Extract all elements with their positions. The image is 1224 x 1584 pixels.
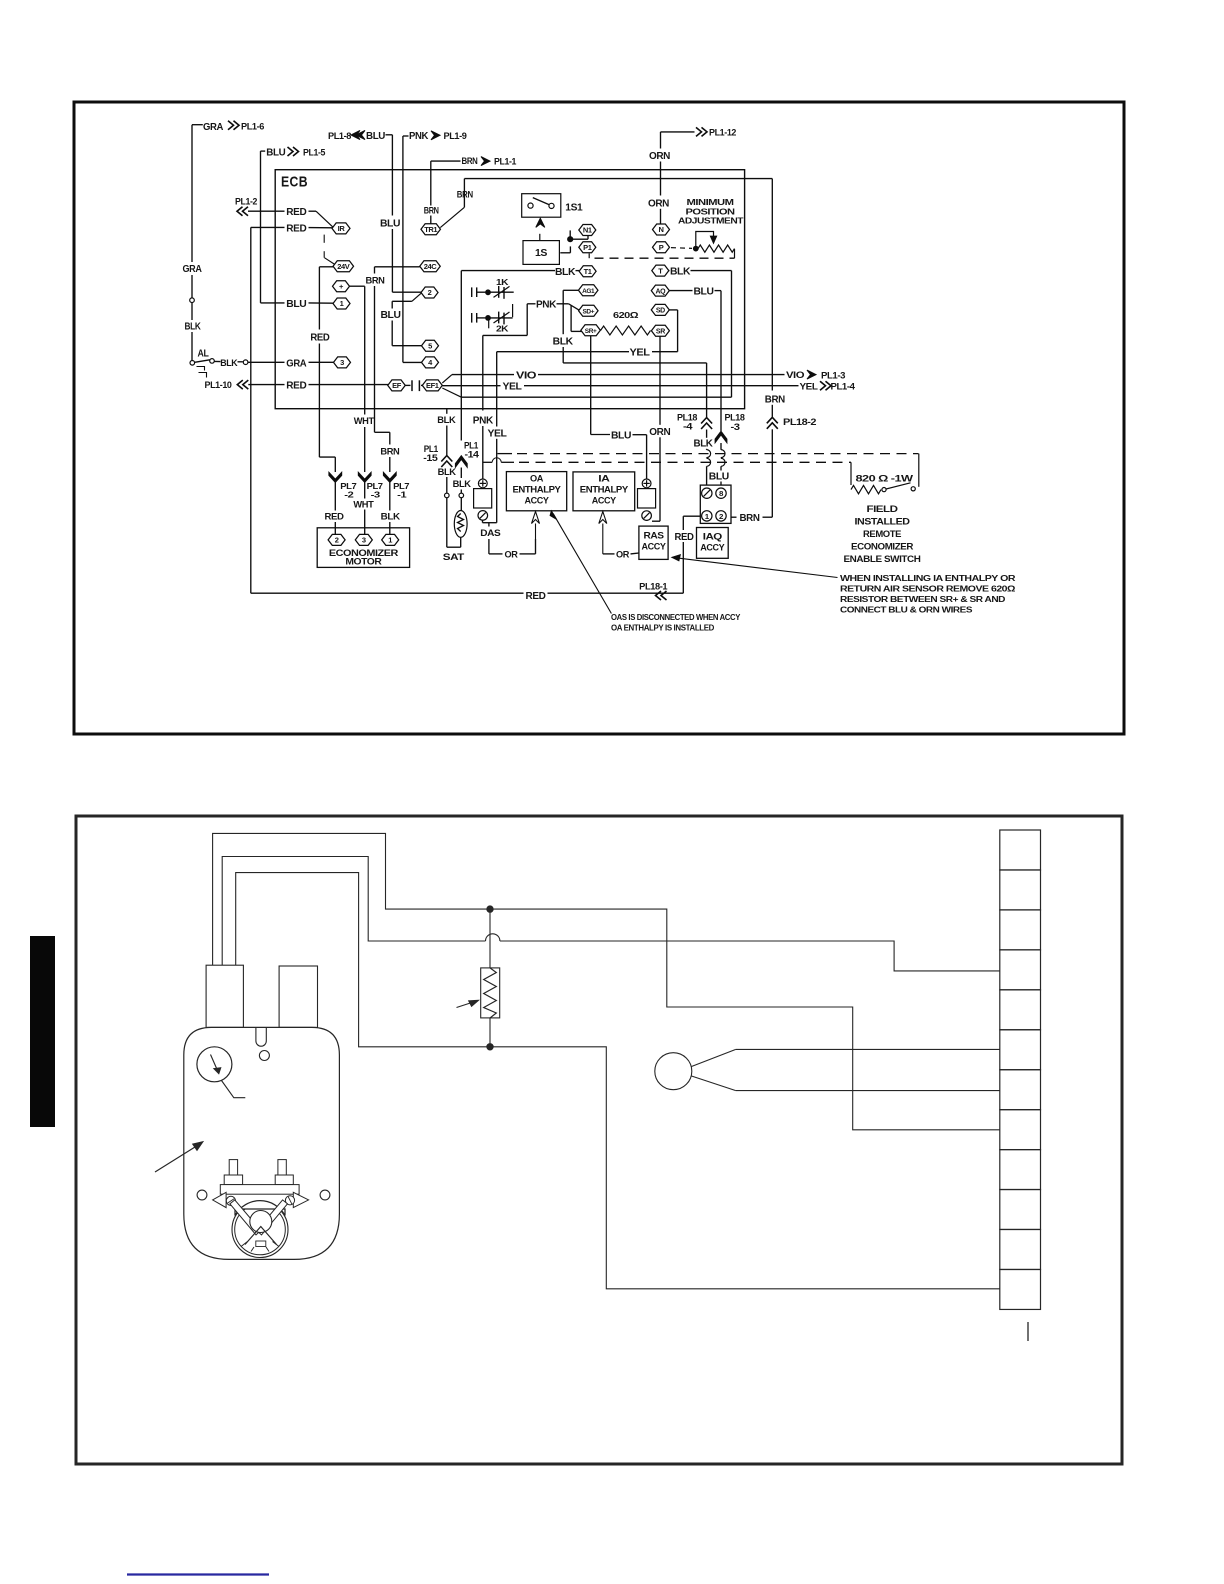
hex terminal 4: [422, 357, 439, 368]
svg-text:2: 2: [719, 512, 723, 521]
svg-text:-15: -15: [423, 453, 437, 463]
contact circle SAT left: [445, 493, 450, 498]
keyhole slot on actuator top: [256, 1027, 266, 1046]
svg-text:ACCY: ACCY: [700, 543, 725, 553]
bracket screws: [226, 1196, 235, 1205]
junction dot wire3/resistor: [487, 1044, 493, 1050]
box RAS accessory: [639, 526, 668, 559]
wire BRN right rail to PL18-2 and terminal 2: [771, 179, 773, 391]
svg-text:1S1: 1S1: [565, 203, 583, 214]
hub circle: [250, 1211, 272, 1233]
gauge dial on actuator: [197, 1047, 232, 1082]
wire BLK PL1-15 branch: [446, 409, 448, 414]
hex terminal T: [652, 265, 669, 276]
wire GRA to terminal 3: [248, 361, 285, 363]
svg-text:PL18-1: PL18-1: [639, 582, 667, 592]
pulley wheel: [232, 1202, 288, 1258]
hex terminal 1 on motor: [382, 534, 399, 545]
junction dot wire1/resistor: [487, 906, 493, 912]
svg-text:8: 8: [719, 489, 723, 498]
svg-text:1: 1: [705, 512, 709, 521]
svg-text:PNK: PNK: [536, 299, 557, 310]
svg-text:BLU: BLU: [611, 431, 631, 442]
wire YEL down to OAS: [496, 352, 498, 427]
plug PL18-3 arrow: [715, 431, 727, 443]
svg-text:ACCY: ACCY: [525, 496, 550, 506]
potentiometer (minimum position): [693, 246, 698, 251]
svg-text:BRN: BRN: [457, 190, 473, 201]
potentiometer circle: [655, 1053, 692, 1090]
svg-text:P: P: [659, 243, 664, 252]
hex terminal AQ: [651, 285, 669, 296]
hex terminal 5: [422, 340, 439, 351]
V arms: [230, 1200, 261, 1235]
arrow into IA enthalpy box with OR: [599, 512, 607, 524]
svg-text:BLK: BLK: [185, 322, 202, 333]
svg-text:INSTALLED: INSTALLED: [855, 516, 911, 527]
svg-text:IAQ: IAQ: [703, 532, 723, 542]
OAS outdoor air sensor: [478, 479, 487, 488]
svg-text:RED: RED: [526, 591, 546, 602]
svg-text:24C: 24C: [424, 262, 438, 271]
svg-text:EF1: EF1: [426, 381, 439, 390]
svg-text:PL1-6: PL1-6: [241, 122, 264, 132]
svg-text:ORN: ORN: [649, 151, 670, 162]
page margin tab: [30, 936, 55, 1127]
terminal block with screws 7 8 1 2: [700, 485, 731, 523]
svg-text:MOTOR: MOTOR: [345, 557, 382, 568]
plug PL18-2 arrow: [767, 417, 778, 429]
svg-text:PNK: PNK: [473, 415, 494, 426]
wire YEL from SD: [669, 309, 678, 311]
plug PL7-2 arrow: [329, 472, 342, 483]
svg-text:IR: IR: [338, 224, 346, 233]
hex terminal 3: [334, 357, 351, 368]
wire branch hex 2 to hex 5: [412, 293, 422, 302]
wire WHT from + to economizer motor 3: [350, 285, 365, 287]
hex terminal 3 on motor: [355, 534, 372, 545]
svg-text:ECB: ECB: [281, 174, 308, 191]
capacitor bars EF-EF1: [405, 384, 410, 386]
hex terminal 24V: [333, 261, 354, 272]
svg-text:BLK: BLK: [381, 512, 401, 523]
hex terminal SD+: [579, 305, 599, 316]
hex terminal TR1: [421, 224, 441, 235]
svg-text:RED: RED: [286, 207, 306, 218]
wire RED bottom run to PL18-1: [251, 592, 524, 594]
arrow into OA enthalpy box: [532, 512, 540, 524]
hex terminal 2 on motor: [328, 534, 345, 545]
svg-text:CONNECT BLU & ORN WIRES: CONNECT BLU & ORN WIRES: [840, 604, 973, 614]
svg-text:VIO: VIO: [786, 370, 804, 380]
hex terminal AG1: [578, 285, 598, 296]
svg-text:3: 3: [362, 536, 366, 545]
plug PL1-14 arrow: [455, 456, 467, 468]
svg-text:BRN: BRN: [366, 275, 386, 286]
svg-text:PL1-3: PL1-3: [821, 370, 845, 380]
hex terminal P1: [579, 242, 596, 253]
callout arrow to actuator: [155, 1145, 199, 1173]
svg-text:1S: 1S: [535, 248, 548, 259]
hex terminal 24C: [420, 261, 441, 272]
plug PL1-15 arrow: [441, 456, 452, 468]
frame of top wiring diagram: [74, 102, 1124, 734]
svg-text:2: 2: [335, 536, 339, 545]
svg-text:ACCY: ACCY: [592, 496, 617, 506]
hex terminal 2: [421, 287, 438, 298]
hex terminal SR: [651, 325, 669, 336]
svg-text:PL18: PL18: [725, 413, 745, 423]
svg-text:RETURN AIR SENSOR REMOVE 620Ω: RETURN AIR SENSOR REMOVE 620Ω: [840, 583, 1016, 593]
dashed wire from P1: [588, 254, 590, 259]
sensor 1S: [536, 218, 545, 227]
wire BLU from SR+ to RAS sensor: [590, 336, 592, 435]
wire BLU into hex 2: [392, 291, 421, 293]
svg-text:1: 1: [388, 536, 392, 545]
hex terminal EF1: [422, 380, 442, 391]
wiper wires from potentiometer to terminal strip: [692, 1049, 736, 1066]
svg-text:SR: SR: [656, 328, 665, 335]
actuator motor body: [184, 1027, 340, 1259]
svg-text:PL1-10: PL1-10: [205, 380, 232, 390]
hex terminal EF: [388, 380, 406, 391]
svg-text:PNK: PNK: [409, 131, 429, 142]
svg-text:GRA: GRA: [203, 122, 223, 133]
svg-text:BLK: BLK: [437, 415, 456, 426]
wire BLK vertical to PL1-14: [460, 271, 462, 441]
svg-text:BRN: BRN: [424, 205, 439, 216]
svg-text:-3: -3: [371, 490, 381, 500]
svg-text:2K: 2K: [496, 324, 509, 334]
plug PL1-1 BRN wire to hex TR1: [431, 160, 461, 162]
svg-text:BLU: BLU: [366, 131, 385, 142]
frame of bottom diagram: [76, 816, 1122, 1464]
wire PNK down to OAS sensor: [482, 335, 484, 410]
dashed boundary line 2: [483, 461, 492, 463]
wire BLK from AG1 to PL18-4 and RAS terminal: [563, 289, 578, 291]
dashed wire from P to potentiometer: [671, 247, 692, 250]
box IA enthalpy accessory: [573, 472, 635, 511]
svg-text:620Ω: 620Ω: [613, 310, 639, 320]
svg-text:GRA: GRA: [286, 358, 306, 369]
svg-text:OR: OR: [616, 549, 630, 560]
box OA enthalpy accessory: [506, 472, 566, 511]
svg-text:OA ENTHALPY IS INSTALLED: OA ENTHALPY IS INSTALLED: [611, 622, 714, 632]
resistor (feedback): [489, 909, 491, 968]
svg-text:FIELD: FIELD: [867, 504, 899, 515]
svg-text:BLK: BLK: [553, 337, 574, 348]
wire 3 (inner) actuator to lower run and terminal strip: [236, 873, 1000, 1289]
svg-text:BLK: BLK: [555, 267, 576, 278]
wire YEL to PL1-4: [442, 385, 500, 387]
mounting holes: [197, 1190, 207, 1200]
svg-text:BRN: BRN: [740, 513, 760, 524]
svg-text:-3: -3: [731, 422, 740, 432]
wire BLK from EF1 joining T rail: [442, 388, 461, 397]
box IAQ accessory: [697, 528, 729, 559]
svg-text:BLU: BLU: [266, 147, 285, 158]
svg-text:BLU: BLU: [709, 471, 729, 482]
svg-text:OA: OA: [530, 474, 544, 484]
hex terminal N1: [579, 225, 596, 236]
svg-text:WHT: WHT: [354, 416, 375, 427]
svg-text:PL1-8: PL1-8: [328, 131, 351, 141]
switch 1S1: [522, 194, 561, 218]
svg-text:BLK: BLK: [220, 358, 237, 369]
wires 1S to N1 and P1: [569, 230, 571, 236]
svg-text:2: 2: [428, 288, 432, 297]
svg-text:RED: RED: [286, 224, 306, 235]
svg-text:OAS IS DISCONNECTED WHEN ACCY: OAS IS DISCONNECTED WHEN ACCY: [611, 612, 741, 622]
plug PL18-4 arrow: [701, 418, 712, 430]
actuator wiring plug right: [279, 966, 317, 1027]
plug PL7-3 arrow: [358, 472, 371, 483]
svg-text:3: 3: [340, 358, 344, 367]
svg-text:BLU: BLU: [380, 218, 400, 229]
svg-text:24V: 24V: [337, 262, 350, 271]
svg-text:N1: N1: [583, 226, 592, 235]
svg-text:BLK: BLK: [694, 439, 714, 450]
svg-text:PL1-9: PL1-9: [444, 131, 467, 141]
svg-text:N: N: [658, 225, 663, 234]
svg-text:SD+: SD+: [582, 308, 594, 315]
wire BLU from AQ to PL18-3: [669, 290, 693, 292]
svg-text:REMOTE: REMOTE: [863, 529, 901, 540]
actuator wiring plug left: [206, 965, 243, 1027]
switch AL (alarm): [190, 361, 195, 366]
svg-text:PL1-2: PL1-2: [235, 197, 257, 207]
svg-text:P1: P1: [583, 243, 592, 252]
svg-text:-4: -4: [683, 422, 692, 432]
svg-text:ORN: ORN: [649, 427, 670, 438]
svg-text:820 Ω -1W: 820 Ω -1W: [856, 474, 914, 485]
svg-text:-14: -14: [465, 449, 479, 459]
svg-text:YEL: YEL: [800, 381, 819, 391]
arrow pointing to resistor: [457, 1001, 477, 1008]
plug PL7-1 arrow: [383, 472, 396, 483]
left wing pointer: [213, 1192, 227, 1207]
svg-text:-1: -1: [397, 490, 407, 500]
hex terminal 1: [333, 298, 350, 309]
svg-text:SAT: SAT: [443, 552, 465, 563]
svg-text:TR1: TR1: [424, 225, 437, 234]
svg-text:AL: AL: [198, 349, 209, 360]
svg-text:BLU: BLU: [381, 310, 401, 321]
tick mark below strip: [1027, 1322, 1029, 1341]
svg-text:5: 5: [428, 342, 432, 351]
pulley cap arc: [235, 1201, 285, 1216]
wire ORN from SR to RAS screw: [659, 336, 661, 425]
svg-text:WHEN INSTALLING IA ENTHALPY OR: WHEN INSTALLING IA ENTHALPY OR: [840, 573, 1016, 583]
splice circle on GRA wire: [190, 298, 195, 303]
ECB economizer control board box: [275, 170, 744, 409]
svg-text:1K: 1K: [496, 277, 509, 287]
svg-text:PL1-5: PL1-5: [303, 147, 325, 157]
hex terminal IR: [332, 223, 350, 234]
crank bracket bar: [220, 1185, 299, 1195]
hex terminal T1: [579, 266, 596, 277]
svg-text:GRA: GRA: [183, 264, 202, 275]
svg-text:BRN: BRN: [380, 446, 400, 457]
wire VIO to PL1-3: [442, 375, 452, 383]
dashed jumper IR to 24V: [323, 235, 325, 243]
wire 2 (middle) actuator to terminal strip: [222, 857, 485, 966]
svg-text:PL1-4: PL1-4: [831, 382, 855, 392]
plug PL18-1 arrow: [656, 591, 667, 600]
svg-text:OR: OR: [505, 549, 519, 560]
wire RED from 24V to economizer motor 2: [319, 266, 333, 268]
svg-text:PL1-12: PL1-12: [709, 128, 736, 138]
svg-text:PL1-1: PL1-1: [494, 156, 516, 166]
hex terminal +: [333, 281, 350, 292]
svg-text:BLU: BLU: [694, 287, 714, 298]
wire 1 (outer) actuator to resistor and terminal strip: [213, 833, 1000, 1129]
svg-text:ENTHALPY: ENTHALPY: [513, 485, 562, 495]
svg-text:RED: RED: [325, 512, 345, 523]
svg-text:IA: IA: [598, 474, 610, 484]
wire BRN from TR1 up to right rail: [440, 207, 464, 227]
svg-text:RED: RED: [675, 532, 694, 543]
dashed boundary line 1: [498, 453, 513, 455]
svg-text:RED: RED: [310, 333, 329, 344]
svg-text:RED: RED: [286, 381, 306, 392]
svg-text:ENTHALPY: ENTHALPY: [580, 485, 629, 495]
svg-text:YEL: YEL: [630, 348, 650, 359]
svg-text:BLU: BLU: [286, 299, 306, 310]
svg-text:T1: T1: [584, 267, 592, 276]
svg-text:VIO: VIO: [516, 371, 537, 382]
contact circle SAT right: [459, 493, 464, 498]
svg-text:1: 1: [340, 299, 344, 308]
svg-text:ENABLE SWITCH: ENABLE SWITCH: [844, 554, 922, 565]
svg-text:ACCY: ACCY: [642, 542, 667, 552]
svg-text:WHT: WHT: [353, 499, 374, 510]
note arrow to OA enthalpy: [553, 514, 611, 614]
svg-text:BLK: BLK: [438, 467, 457, 478]
svg-text:YEL: YEL: [488, 428, 507, 439]
svg-text:ECONOMIZER: ECONOMIZER: [851, 541, 914, 552]
terminal strip: [1000, 830, 1041, 870]
note arrow to RAS accy: [675, 558, 838, 578]
svg-text:YEL: YEL: [503, 382, 522, 393]
svg-text:ORN: ORN: [648, 198, 669, 209]
wire BRN from 24C to economizer motor 1: [375, 266, 420, 268]
svg-text:RAS: RAS: [644, 531, 665, 541]
alarm contact symbol below switch: [197, 367, 205, 371]
crank arm assembly: bolts: [229, 1160, 237, 1175]
svg-text:-2: -2: [344, 490, 354, 500]
svg-text:RESISTOR BETWEEN SR+ & SR AND: RESISTOR BETWEEN SR+ & SR AND: [840, 594, 1005, 604]
svg-text:AQ: AQ: [655, 288, 666, 295]
svg-text:BLK: BLK: [453, 479, 472, 490]
hyperlink rule at page bottom: [127, 1573, 269, 1575]
svg-text:BRN: BRN: [765, 394, 785, 405]
svg-text:SR+: SR+: [585, 328, 597, 335]
svg-text:BRN: BRN: [462, 156, 478, 167]
svg-text:BLK: BLK: [670, 266, 691, 277]
RAS return air sensor: [642, 479, 651, 488]
hex terminal N: [653, 224, 670, 235]
svg-text:EF: EF: [392, 381, 402, 390]
sensor SAT oval with resistor: [454, 511, 467, 538]
plug PL1-5 BLU wire to hex 1: [261, 150, 266, 152]
svg-text:AG1: AG1: [582, 288, 595, 295]
right wing pointer: [293, 1192, 308, 1207]
svg-text:DAS: DAS: [480, 528, 500, 539]
wire GRA from PL1-6 down left side: [192, 124, 203, 126]
wire RED (vertical rail to bottom RED run): [250, 227, 252, 593]
hex terminal SR+: [581, 325, 601, 336]
svg-text:SD: SD: [656, 308, 665, 315]
hex terminal SD: [651, 304, 669, 315]
economizer motor box: [317, 528, 409, 568]
wire RED to hex IR: [251, 226, 285, 228]
plug PL1-12 ORN wire to hex N: [661, 131, 695, 133]
svg-text:PL18-2: PL18-2: [783, 417, 816, 427]
svg-text:ADJUSTMENT: ADJUSTMENT: [678, 216, 744, 226]
hex terminal P: [653, 242, 670, 253]
